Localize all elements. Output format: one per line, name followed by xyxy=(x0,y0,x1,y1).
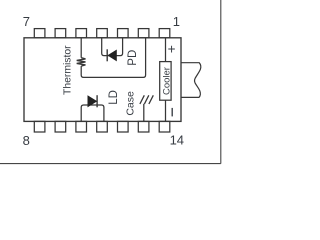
laser diode LD triangle xyxy=(88,96,97,107)
pin 3 xyxy=(118,29,129,38)
package body xyxy=(24,38,181,122)
pin 11 xyxy=(97,121,108,132)
pin 5 xyxy=(76,29,87,38)
pin 14 xyxy=(159,121,170,132)
thermistor element (zigzag) xyxy=(77,58,86,66)
case chassis ground hatch 3 xyxy=(149,95,153,104)
laser diode LD cathode bar xyxy=(96,95,98,107)
wire pin1 to cooler top xyxy=(165,38,167,62)
pin 7 xyxy=(34,29,45,38)
wire cooler bottom to pin14 xyxy=(165,100,167,121)
pin 8 xyxy=(34,121,45,132)
pin 1 xyxy=(159,29,170,38)
pin 2 xyxy=(138,29,149,38)
photodiode PD triangle xyxy=(108,50,117,61)
wire pin10 - laser diode - pin11 bracket xyxy=(81,105,104,121)
svg-text:Thermistor: Thermistor xyxy=(62,45,73,95)
case chassis ground hatch 2 xyxy=(144,95,148,104)
wire pin5 to thermistor top xyxy=(80,38,82,58)
pin 10 xyxy=(76,121,87,132)
wire pin13 to case ground xyxy=(143,104,145,122)
cooler box xyxy=(160,62,171,101)
pin 9 xyxy=(55,121,66,132)
wire thermistor bottom to pin 2 xyxy=(81,38,145,78)
wire pin4 - photodiode - pin3 bracket xyxy=(102,38,123,56)
svg-text:7: 7 xyxy=(23,14,30,29)
fiber snout with break xyxy=(181,63,201,98)
pin 12 xyxy=(118,121,129,132)
case chassis ground hatch 1 xyxy=(140,95,144,104)
svg-text:8: 8 xyxy=(23,133,30,148)
svg-text:+: + xyxy=(168,41,176,56)
svg-text:Case: Case xyxy=(124,91,136,116)
svg-text:LD: LD xyxy=(108,90,120,105)
pin 4 xyxy=(97,29,108,38)
pin 13 xyxy=(138,121,149,132)
pin 6 xyxy=(55,29,66,38)
svg-text:PD: PD xyxy=(127,50,139,66)
svg-text:1: 1 xyxy=(173,14,180,29)
photodiode PD cathode bar xyxy=(106,49,108,61)
svg-text:14: 14 xyxy=(170,133,184,148)
label minus (cooler negative) xyxy=(171,108,173,117)
svg-text:Cooler: Cooler xyxy=(162,67,173,95)
